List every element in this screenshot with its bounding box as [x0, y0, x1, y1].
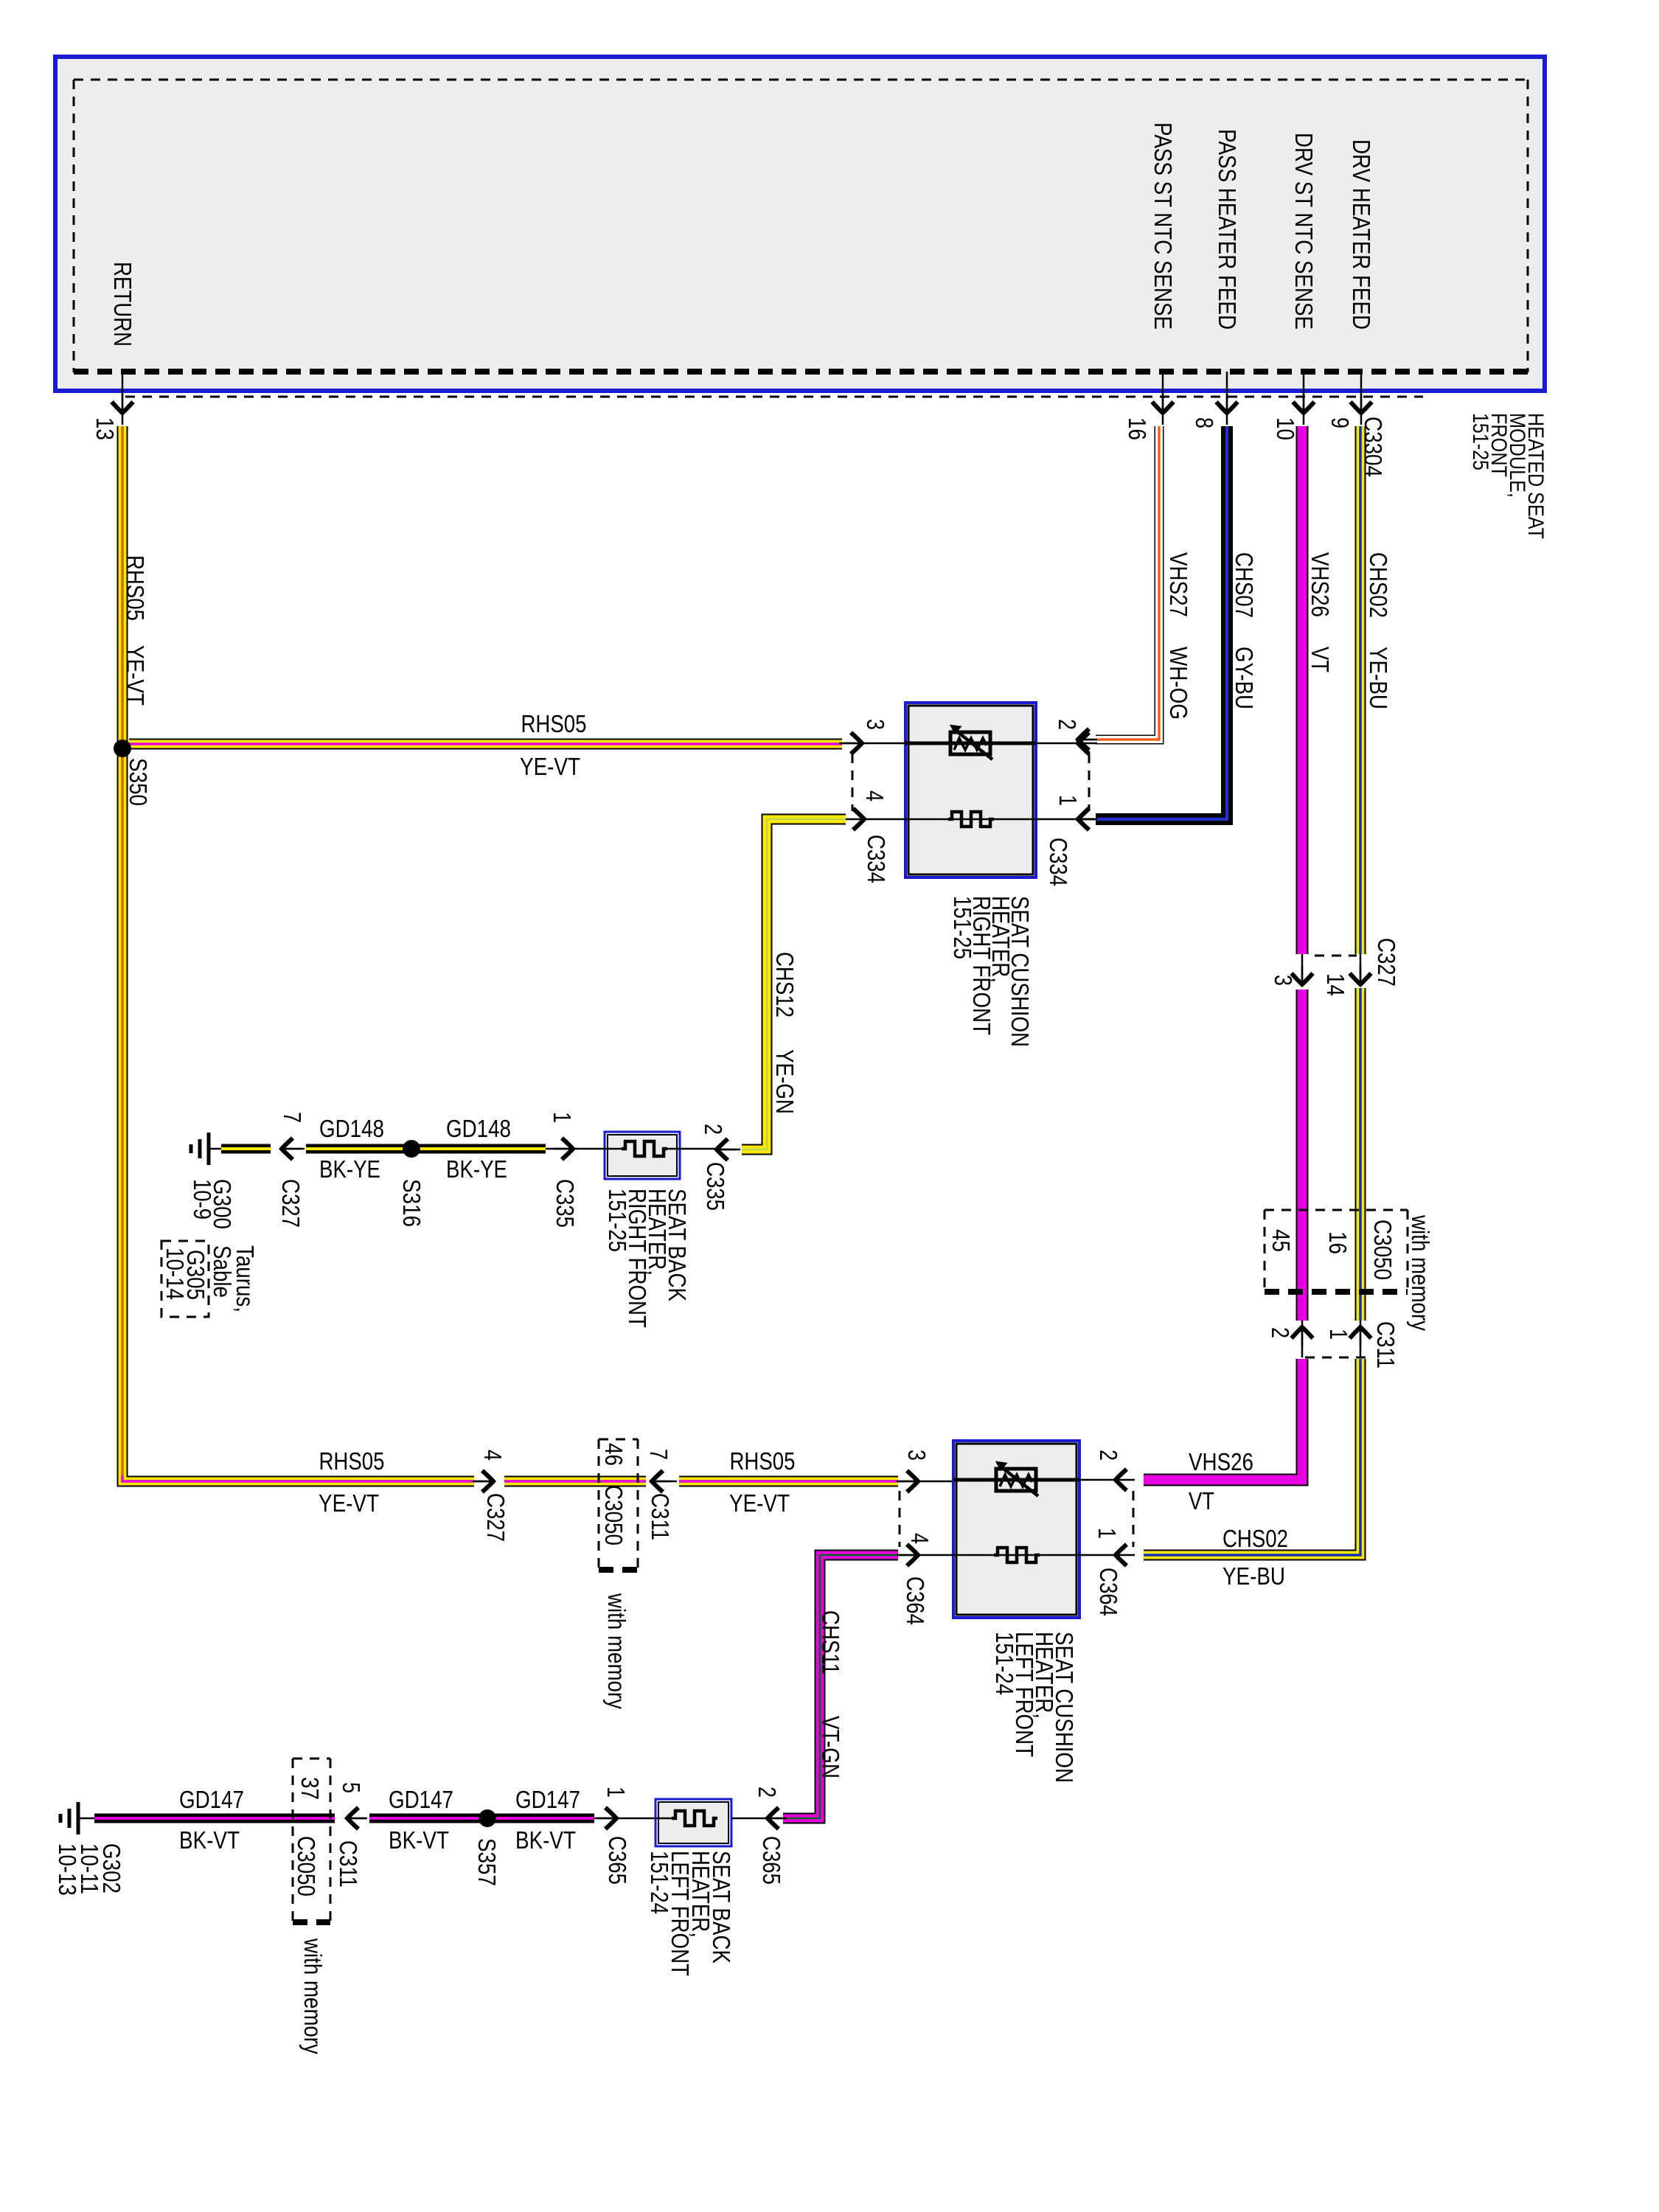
- svg-text:45: 45: [1267, 1229, 1295, 1252]
- svg-text:C327: C327: [482, 1493, 509, 1542]
- svg-text:GD148: GD148: [446, 1115, 511, 1142]
- svg-text:2: 2: [754, 1787, 781, 1798]
- svg-text:4: 4: [861, 790, 888, 801]
- svg-text:PASS ST NTC SENSE: PASS ST NTC SENSE: [1150, 122, 1177, 330]
- svg-text:RHS05: RHS05: [730, 1447, 796, 1475]
- svg-text:CHS11: CHS11: [817, 1610, 844, 1674]
- svg-text:VHS26: VHS26: [1307, 552, 1334, 617]
- svg-text:WH-OG: WH-OG: [1165, 647, 1192, 720]
- svg-text:CHS07: CHS07: [1231, 552, 1258, 618]
- svg-text:C335: C335: [702, 1162, 729, 1211]
- svg-text:YE-VT: YE-VT: [520, 753, 580, 780]
- svg-text:C365: C365: [604, 1836, 631, 1885]
- svg-text:YE-VT: YE-VT: [122, 645, 149, 706]
- svg-text:C335: C335: [552, 1179, 579, 1228]
- svg-text:1: 1: [1054, 795, 1082, 806]
- svg-text:C364: C364: [1095, 1568, 1122, 1616]
- svg-text:14: 14: [1322, 973, 1349, 996]
- svg-text:Sable: Sable: [209, 1245, 236, 1298]
- svg-text:CHS02: CHS02: [1222, 1525, 1288, 1552]
- svg-text:1: 1: [602, 1787, 630, 1798]
- svg-text:CHS02: CHS02: [1365, 552, 1392, 618]
- svg-text:BK-VT: BK-VT: [515, 1826, 576, 1854]
- svg-text:4: 4: [906, 1533, 933, 1544]
- svg-text:37: 37: [296, 1777, 324, 1800]
- svg-text:VT: VT: [1189, 1487, 1214, 1514]
- svg-text:BK-YE: BK-YE: [446, 1155, 507, 1183]
- svg-text:10-13: 10-13: [54, 1843, 81, 1896]
- svg-text:3: 3: [1270, 975, 1297, 986]
- svg-text:RHS05: RHS05: [122, 555, 149, 621]
- svg-text:46: 46: [600, 1443, 627, 1466]
- svg-text:C3050: C3050: [600, 1485, 627, 1545]
- svg-text:10-14: 10-14: [161, 1248, 189, 1300]
- svg-text:C334: C334: [863, 835, 890, 883]
- svg-text:4: 4: [479, 1450, 507, 1461]
- svg-text:7: 7: [645, 1449, 672, 1460]
- svg-text:10: 10: [1272, 417, 1299, 440]
- svg-text:C3050: C3050: [293, 1836, 320, 1896]
- svg-text:YE-BU: YE-BU: [1365, 647, 1392, 709]
- svg-text:CHS12: CHS12: [771, 952, 799, 1018]
- svg-text:BK-VT: BK-VT: [179, 1826, 240, 1854]
- svg-text:GD148: GD148: [319, 1115, 384, 1142]
- svg-text:3: 3: [862, 719, 889, 730]
- svg-text:3: 3: [903, 1450, 931, 1461]
- svg-text:C364: C364: [902, 1576, 929, 1625]
- svg-text:DRV ST NTC SENSE: DRV ST NTC SENSE: [1290, 133, 1318, 330]
- svg-text:C365: C365: [758, 1836, 785, 1885]
- svg-text:8: 8: [1191, 417, 1218, 428]
- svg-text:YE-VT: YE-VT: [319, 1489, 379, 1517]
- svg-text:2: 2: [1267, 1327, 1294, 1338]
- svg-text:2: 2: [1095, 1450, 1122, 1461]
- svg-text:VHS27: VHS27: [1165, 552, 1192, 617]
- svg-text:with memory: with memory: [299, 1938, 327, 2054]
- svg-text:PASS HEATER FEED: PASS HEATER FEED: [1214, 129, 1241, 330]
- svg-text:RETURN: RETURN: [109, 262, 136, 347]
- svg-text:GY-BU: GY-BU: [1231, 647, 1258, 709]
- svg-text:BK-YE: BK-YE: [319, 1155, 380, 1183]
- svg-text:YE-GN: YE-GN: [771, 1049, 799, 1114]
- svg-text:16: 16: [1124, 417, 1151, 440]
- svg-text:BK-VT: BK-VT: [389, 1826, 449, 1854]
- svg-text:RHS05: RHS05: [319, 1447, 385, 1475]
- svg-text:DRV HEATER FEED: DRV HEATER FEED: [1348, 139, 1375, 330]
- svg-text:2: 2: [700, 1124, 727, 1135]
- svg-text:S316: S316: [398, 1179, 425, 1227]
- svg-text:1: 1: [1093, 1528, 1121, 1539]
- svg-text:with memory: with memory: [603, 1593, 630, 1709]
- svg-text:VT-GN: VT-GN: [817, 1716, 844, 1778]
- svg-text:C327: C327: [1373, 938, 1400, 987]
- svg-text:13: 13: [91, 417, 119, 440]
- svg-text:5: 5: [338, 1782, 365, 1793]
- svg-text:with memory: with memory: [1407, 1214, 1434, 1331]
- svg-text:C311: C311: [647, 1493, 674, 1540]
- svg-text:C311: C311: [335, 1840, 362, 1888]
- svg-text:S350: S350: [125, 758, 152, 806]
- svg-text:2: 2: [1054, 719, 1081, 730]
- svg-text:C334: C334: [1045, 838, 1072, 886]
- svg-text:GD147: GD147: [515, 1786, 580, 1813]
- svg-text:C3050: C3050: [1369, 1220, 1397, 1280]
- svg-text:YE-VT: YE-VT: [729, 1489, 790, 1517]
- svg-text:GD147: GD147: [179, 1786, 244, 1813]
- svg-text:9: 9: [1326, 417, 1354, 428]
- svg-text:10-9: 10-9: [189, 1179, 216, 1220]
- svg-text:C327: C327: [277, 1179, 305, 1228]
- svg-text:C311: C311: [1372, 1321, 1399, 1368]
- svg-text:VHS26: VHS26: [1189, 1448, 1253, 1475]
- svg-text:VT: VT: [1307, 647, 1334, 672]
- svg-text:YE-BU: YE-BU: [1222, 1562, 1285, 1590]
- svg-text:7: 7: [279, 1112, 306, 1123]
- svg-text:16: 16: [1324, 1231, 1352, 1254]
- svg-text:RHS05: RHS05: [521, 710, 587, 737]
- svg-text:1: 1: [1325, 1329, 1352, 1340]
- svg-text:S357: S357: [473, 1838, 501, 1886]
- svg-text:1: 1: [549, 1112, 576, 1123]
- svg-text:GD147: GD147: [389, 1786, 453, 1813]
